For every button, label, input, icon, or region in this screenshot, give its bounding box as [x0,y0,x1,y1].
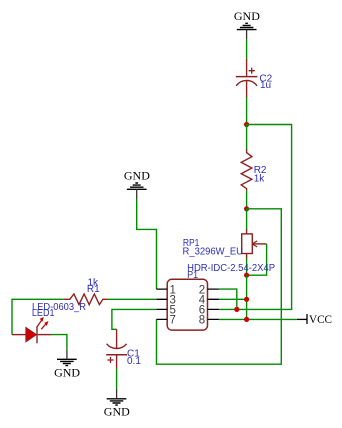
svg-text:GND: GND [124,168,150,182]
node junction2 R2/RP1/pin7 [244,206,249,211]
wire R2 to junction2 [246,191,248,209]
svg-text:1u: 1u [260,80,271,91]
svg-text:1k: 1k [254,174,266,185]
node pin4 junction [244,297,249,302]
capacitor C1 [106,329,141,368]
svg-text:8: 8 [199,315,205,327]
wire [246,39,248,59]
wire RP1 bottom to junction3 [246,259,248,276]
svg-text:0.1: 0.1 [127,356,141,367]
trimmer potentiometer RP1 [183,229,267,259]
svg-text:GND: GND [54,365,80,379]
node pin8 junction [244,317,249,322]
wire pin2 to pin6 row [219,289,237,309]
resistor R1 [64,277,107,304]
wire junction1 down to R2 [246,125,248,150]
wire pin8 row to VCC [219,318,297,320]
power flag VCC [297,312,332,326]
svg-text:R1: R1 [87,284,100,295]
wire wiper to junction3 [247,244,267,275]
wire middle GND to pin1 [137,199,157,289]
wire junction3 down to pin8 row [246,275,248,319]
ground GND top [234,9,260,39]
wire LED to ground [52,335,67,350]
svg-text:7: 7 [170,315,176,327]
svg-text:VCC: VCC [309,312,332,326]
svg-text:GND: GND [104,404,130,418]
wire C1 to ground [116,369,118,389]
ground GND middle [124,168,150,199]
node junction3 RP1/wiper [244,273,249,278]
svg-text:LED1: LED1 [32,308,55,319]
resistor R2 [241,149,267,191]
svg-text:R_3296W_EU: R_3296W_EU [183,247,244,258]
header P1 [156,263,275,330]
ground GND LED [54,349,80,379]
wire R1 left to LED [12,299,64,334]
svg-text:GND: GND [234,9,260,23]
wire pin5 row to C1 [112,309,156,329]
node junction1 C2/R2 [244,122,249,127]
ground GND bottom [104,389,130,419]
wire junction2 down to RP1 [246,209,248,230]
wire junction2 right down around to pin7 [157,209,282,364]
wire junction1 to pin6 row [219,125,292,310]
node pin2/pin6 junction [234,307,239,312]
LED LED1 [12,302,86,344]
wire pin3 row to R1 [107,298,156,300]
wire pin4 row [219,298,247,300]
wire [246,97,248,125]
svg-text:HDR-IDC-2.54-2X4P: HDR-IDC-2.54-2X4P [187,263,275,274]
svg-text:P1: P1 [187,270,198,281]
capacitor C2 [236,59,273,97]
